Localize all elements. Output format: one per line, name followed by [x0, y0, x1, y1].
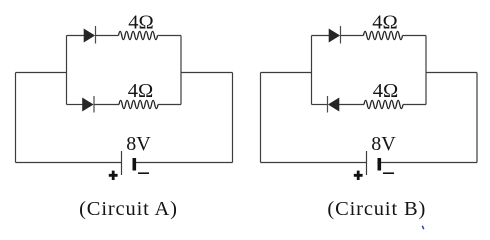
diode D1 (Circuit A top, pointing right)	[84, 29, 95, 42]
resistor R1 (Circuit A top, 4 ohm)	[119, 31, 158, 39]
wire: B top branch middle lead	[341, 35, 364, 37]
svg-text:8V: 8V	[126, 133, 151, 155]
diode D2 cathode bar	[93, 96, 95, 113]
diode D2 (Circuit A bottom, pointing right)	[83, 98, 94, 111]
wire: A top branch anode lead	[67, 35, 85, 37]
wire: A inner left vertical	[66, 36, 68, 105]
wire: A bottom branch anode lead	[67, 104, 83, 106]
wire: B bottom wire left of battery	[261, 162, 367, 164]
wire: B bottom branch middle lead	[339, 104, 364, 106]
battery B1 negative plate	[133, 158, 137, 171]
svg-text:8V: 8V	[371, 133, 396, 155]
resistor R4 (Circuit B bottom, 4 ohm)	[364, 100, 403, 108]
wire: B top branch anode lead	[312, 35, 330, 37]
resistor R2 (Circuit A bottom, 4 ohm)	[119, 100, 158, 108]
wire: A top branch right lead	[158, 35, 182, 37]
wire: B outer right vertical	[476, 73, 478, 163]
wire: B outer right horizontal	[426, 72, 477, 74]
stray blue mark bottom right	[422, 226, 424, 229]
plus sign (Circuit A battery)	[109, 171, 118, 180]
wire: A bottom branch right lead	[158, 104, 181, 106]
wire: B bottom branch left lead	[312, 104, 328, 106]
minus sign (Circuit A battery)	[138, 172, 149, 174]
wire: A outer right vertical	[232, 73, 234, 163]
wire: A bottom wire right of battery	[134, 162, 232, 164]
wire: A bottom wire left of battery	[16, 162, 122, 164]
svg-text:4Ω: 4Ω	[373, 80, 399, 102]
diode D3 cathode bar	[340, 26, 342, 44]
battery B2 negative plate	[378, 158, 382, 171]
wire: B bottom branch right lead	[403, 104, 426, 106]
wire: B outer left vertical	[260, 73, 262, 163]
diode D1 cathode bar	[95, 26, 97, 44]
wire: A outer right horizontal	[181, 72, 233, 74]
wire: A inner right vertical	[180, 36, 182, 105]
diode D3 (Circuit B top, pointing right)	[329, 29, 340, 42]
svg-text:4Ω: 4Ω	[128, 11, 154, 33]
wire: B bottom wire right of battery	[379, 162, 477, 164]
svg-text:4Ω: 4Ω	[372, 11, 398, 33]
plus sign (Circuit B battery)	[354, 171, 363, 180]
wire: B inner left vertical	[311, 36, 313, 105]
wire: B outer left horizontal	[261, 72, 312, 74]
battery B1 (Circuit A, 8V) positive plate	[121, 151, 123, 175]
diode D4 cathode bar	[327, 96, 329, 113]
battery B2 (Circuit B, 8V) positive plate	[366, 151, 368, 175]
wire: A top branch middle lead	[96, 35, 119, 37]
svg-text:(Circuit A): (Circuit A)	[79, 198, 178, 220]
svg-text:(Circuit B): (Circuit B)	[327, 198, 426, 220]
wire: B top branch right lead	[403, 35, 427, 37]
svg-text:4Ω: 4Ω	[128, 80, 154, 102]
wire: A outer left horizontal to inner node	[16, 72, 67, 74]
minus sign (Circuit B battery)	[383, 172, 394, 174]
diode D4 (Circuit B bottom, pointing left)	[329, 98, 340, 111]
wire: A outer left vertical	[15, 73, 17, 163]
wire: A bottom branch middle lead	[94, 104, 119, 106]
resistor R3 (Circuit B top, 4 ohm)	[364, 31, 403, 39]
wire: B inner right vertical	[425, 36, 427, 105]
